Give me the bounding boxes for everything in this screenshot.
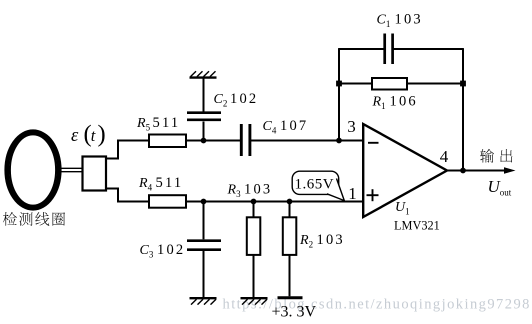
svg-text:+3. 3V: +3. 3V <box>272 303 317 320</box>
svg-text:102: 102 <box>230 91 258 107</box>
svg-text:ε: ε <box>71 126 79 146</box>
wire feedback left vertical <box>338 49 340 139</box>
wire R5 to C4 <box>186 140 240 142</box>
resistor R1 <box>372 78 407 90</box>
capacitor C2 <box>187 113 221 120</box>
svg-text:103: 103 <box>244 182 272 198</box>
op-amp minus input mark <box>368 142 379 144</box>
svg-text:4: 4 <box>440 147 449 166</box>
label 检测线圈 (detection coil) <box>3 212 65 226</box>
wire C2 to node <box>203 122 205 141</box>
svg-text:102: 102 <box>157 242 185 258</box>
svg-text:1.65V: 1.65V <box>295 176 335 192</box>
svg-text:106: 106 <box>390 94 418 110</box>
node junction output/feedback <box>460 168 466 174</box>
resistor R3 <box>247 217 260 255</box>
svg-text:LMV321: LMV321 <box>394 219 440 233</box>
ground (C3) <box>190 298 217 304</box>
wire R1 left <box>339 83 372 85</box>
ground (R3) <box>241 298 268 304</box>
node junction R3 <box>251 199 257 205</box>
op-amp U1 <box>363 124 447 217</box>
svg-text:https://blog.csdn.net/zhuoqing: https://blog.csdn.net/zhuoqingjoking9729… <box>223 297 531 313</box>
node junction R4/C3 <box>201 199 207 205</box>
op-amp plus input mark <box>367 189 379 201</box>
node junction feedback/pin3 <box>336 138 342 144</box>
node square left feedback <box>336 81 342 87</box>
capacitor C1 <box>385 34 393 65</box>
wire coil double lead <box>57 168 83 171</box>
capacitor C3 <box>187 241 221 250</box>
inductor L1 detection coil <box>4 129 63 210</box>
resistor R4 <box>149 195 186 208</box>
wire R1 right <box>407 83 463 85</box>
callout bubble 1.65V <box>292 171 339 194</box>
node junction R5/C2 <box>201 138 207 144</box>
wire R2 top <box>289 202 291 218</box>
svg-text:103: 103 <box>317 232 345 248</box>
svg-text:511: 511 <box>156 175 184 191</box>
wire C3 to ground <box>203 251 205 298</box>
wire R3 top <box>253 202 255 218</box>
svg-text:3: 3 <box>347 117 356 136</box>
wire C1 top right <box>393 48 464 50</box>
wire feedback right vertical <box>462 49 464 169</box>
resistor R2 <box>283 217 297 255</box>
wire C4 to op-amp pin 3 <box>251 140 363 142</box>
svg-text:t: t <box>91 126 96 145</box>
wire sensor to R4 <box>106 189 149 202</box>
ground (top, C2) <box>190 71 217 77</box>
svg-text:103: 103 <box>395 12 423 28</box>
wire output <box>447 170 506 172</box>
sensor body box <box>83 157 107 191</box>
wire C3 top <box>203 202 205 240</box>
wire R3 to ground <box>253 255 255 298</box>
node junction R2 <box>287 199 293 205</box>
resistor R5 <box>149 135 186 148</box>
svg-text:1: 1 <box>348 184 357 203</box>
node square right feedback <box>460 81 466 87</box>
wire C1 top left <box>338 48 384 50</box>
wire R2 to +3.3V <box>289 255 291 296</box>
output arrowhead <box>504 167 516 174</box>
capacitor C4 <box>241 124 250 156</box>
power rail +3.3V bar <box>278 296 303 299</box>
wire C2 to ground <box>203 78 205 112</box>
wire sensor to R5 <box>106 141 149 159</box>
svg-text:511: 511 <box>153 115 181 131</box>
wire R4 to op-amp pin 1 <box>186 201 363 203</box>
svg-text:107: 107 <box>280 118 308 134</box>
svg-text:): ) <box>98 121 106 148</box>
label 输出 (output) <box>480 149 512 163</box>
